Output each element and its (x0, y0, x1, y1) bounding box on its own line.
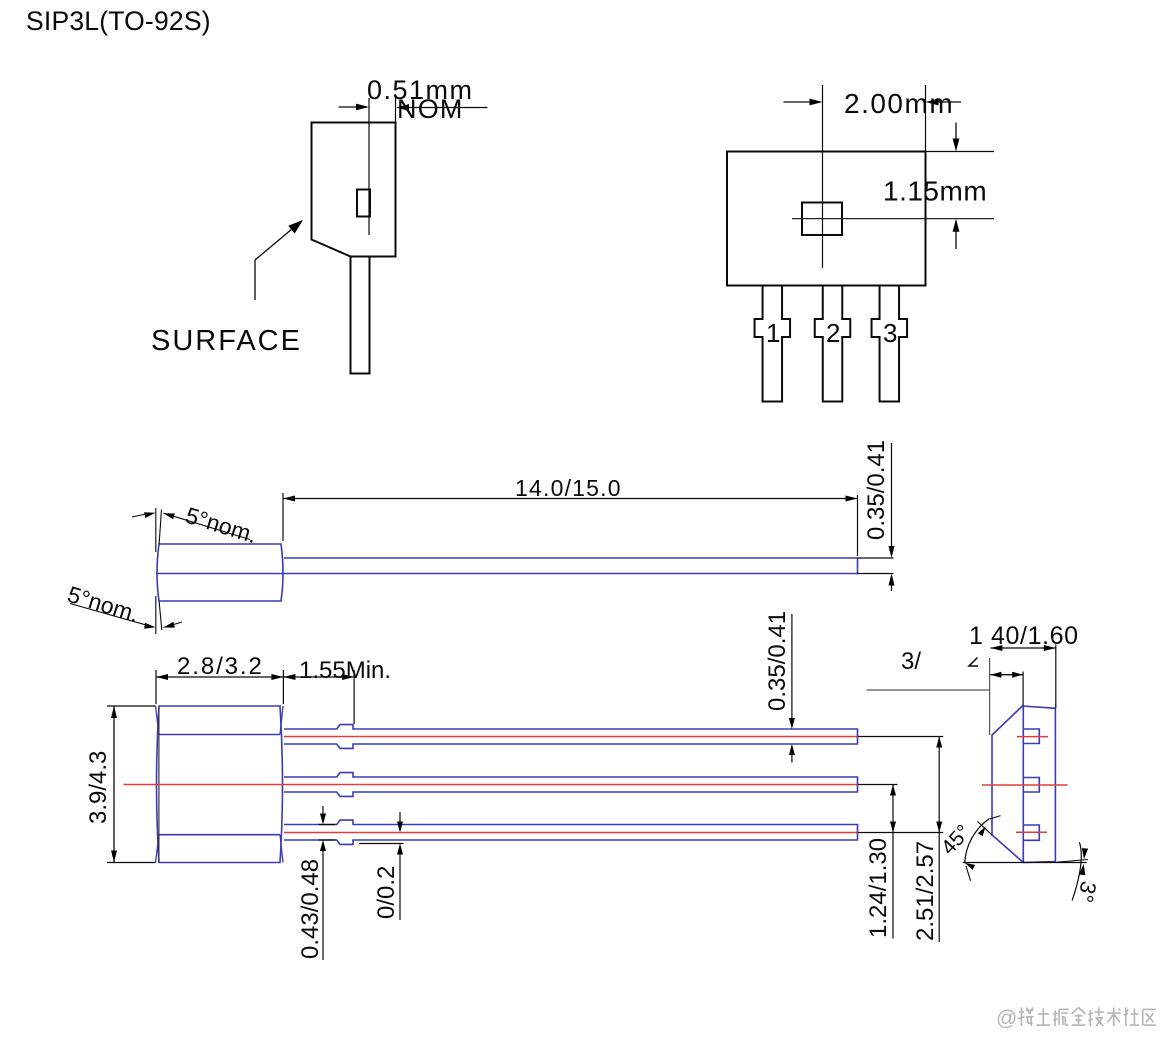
lead A red center line (284, 736, 858, 738)
vertical extension line at right edge (925, 85, 927, 152)
dimension 1.55Min. (353, 670, 355, 724)
lead 3 (front view) (872, 286, 908, 402)
svg-text:1 40/1.60: 1 40/1.60 (969, 622, 1079, 650)
dimension 0/0.2 (399, 812, 401, 822)
dimension 0.43/0.48 (322, 806, 324, 814)
1.15mm top down-arrow (955, 123, 957, 141)
dimension 14.0/15.0 (282, 493, 284, 541)
inner face line (1022, 706, 1024, 863)
extension line at body right edge (395, 94, 397, 123)
angle glyph (969, 658, 978, 667)
dimension 2.8/3.2 (155, 670, 157, 704)
dimension 2.00mm left arrow (784, 101, 811, 103)
5 deg nom marks (bottom) (155, 596, 157, 634)
svg-text:3: 3 (883, 318, 897, 348)
lead 1 (front view) (755, 286, 791, 402)
svg-text:1.24/1.30: 1.24/1.30 (865, 838, 892, 938)
note underline (867, 689, 990, 691)
seating plane baseline (963, 862, 1087, 864)
svg-text:3/: 3/ (901, 648, 921, 675)
center square marking (802, 203, 842, 236)
body red center line (124, 784, 285, 786)
svg-text:2.00mm: 2.00mm (844, 88, 954, 119)
45 degree arc (965, 819, 990, 864)
svg-text:@: @ (996, 1007, 1017, 1030)
dark left edge line (158, 707, 160, 862)
SURFACE leader line and arrow (254, 260, 256, 300)
chamfer extension tick (978, 822, 993, 836)
vertical center line (822, 85, 824, 268)
lead (side view, blue) (284, 558, 858, 574)
dimension 1.24/1.30 (892, 785, 894, 939)
small dimension below (990, 674, 1023, 676)
svg-text:2.51/2.57: 2.51/2.57 (912, 841, 939, 941)
package body outline (top-left side view) (312, 123, 396, 257)
3 degree arc (1072, 842, 1081, 900)
svg-text:1.55Min.: 1.55Min. (299, 657, 391, 684)
dimension 0.51mm left arrow (339, 106, 358, 108)
dimension line 1.40/1.60 (990, 647, 1055, 649)
lead A top (bottom view, blue) (284, 725, 858, 749)
lead B middle (bottom view, blue) (284, 773, 858, 797)
svg-text:14.0/15.0: 14.0/15.0 (515, 475, 622, 501)
lead C bottom (bottom view, blue) (284, 820, 858, 844)
extension line lead B center (858, 784, 898, 786)
body mid line (156, 573, 284, 575)
dimension 2.00mm right arrow (938, 101, 961, 103)
dimension 3.9/4.3 (107, 705, 156, 707)
body top extension line (926, 151, 995, 153)
package body outline (front view) (727, 152, 926, 286)
extension line through dimple (368, 98, 370, 235)
svg-text:0.35/0.41: 0.35/0.41 (863, 440, 890, 540)
lead (top-left view) (351, 257, 370, 374)
dimension 2.51/2.57 (938, 737, 940, 943)
extension line lead A center (858, 736, 943, 738)
dimple rectangle on package face (357, 190, 370, 217)
dimension 0.35/0.41 (lead A) (791, 614, 793, 718)
svg-text:0/0.2: 0/0.2 (373, 866, 400, 919)
red line through notch B (982, 784, 1068, 786)
svg-text:1.15mm: 1.15mm (883, 176, 987, 207)
5 deg nom marks (top) (155, 508, 157, 552)
lead notch C (1023, 825, 1039, 840)
red line through notch A (1017, 736, 1048, 738)
svg-text:0.43/0.48: 0.43/0.48 (297, 859, 324, 959)
lead notch B (1023, 778, 1039, 793)
lead C red center line (284, 832, 858, 834)
dimension 0.51mm right arrow with NOM line (407, 107, 488, 109)
3 degree line (1057, 860, 1088, 863)
horizontal line through square center (792, 218, 994, 220)
svg-text:1: 1 (766, 318, 780, 348)
lead 2 (front view) (815, 286, 851, 402)
svg-text:2: 2 (826, 318, 840, 348)
svg-text:NOM: NOM (397, 94, 464, 124)
body outline (end profile view, blue) (992, 706, 1055, 863)
svg-text:SIP3L(TO-92S): SIP3L(TO-92S) (26, 6, 211, 36)
body outline (bottom-left view, blue) (157, 706, 283, 863)
svg-text:SURFACE: SURFACE (151, 325, 302, 357)
body outline (lead side view, blue) (157, 544, 283, 601)
dimension 0.35/0.41 (middle lead thickness) (858, 557, 894, 559)
body inner lines and chamfers (159, 734, 280, 736)
svg-text:3.9/4.3: 3.9/4.3 (85, 751, 112, 824)
svg-text:2.8/3.2: 2.8/3.2 (177, 653, 264, 680)
red line through notch C (1016, 831, 1047, 833)
1.15mm bottom up-arrow (953, 219, 960, 232)
extension line lead C center (858, 832, 943, 834)
lead notch A (1023, 729, 1039, 744)
lead B red center line (284, 784, 858, 786)
svg-text:0.35/0.41: 0.35/0.41 (764, 611, 791, 711)
